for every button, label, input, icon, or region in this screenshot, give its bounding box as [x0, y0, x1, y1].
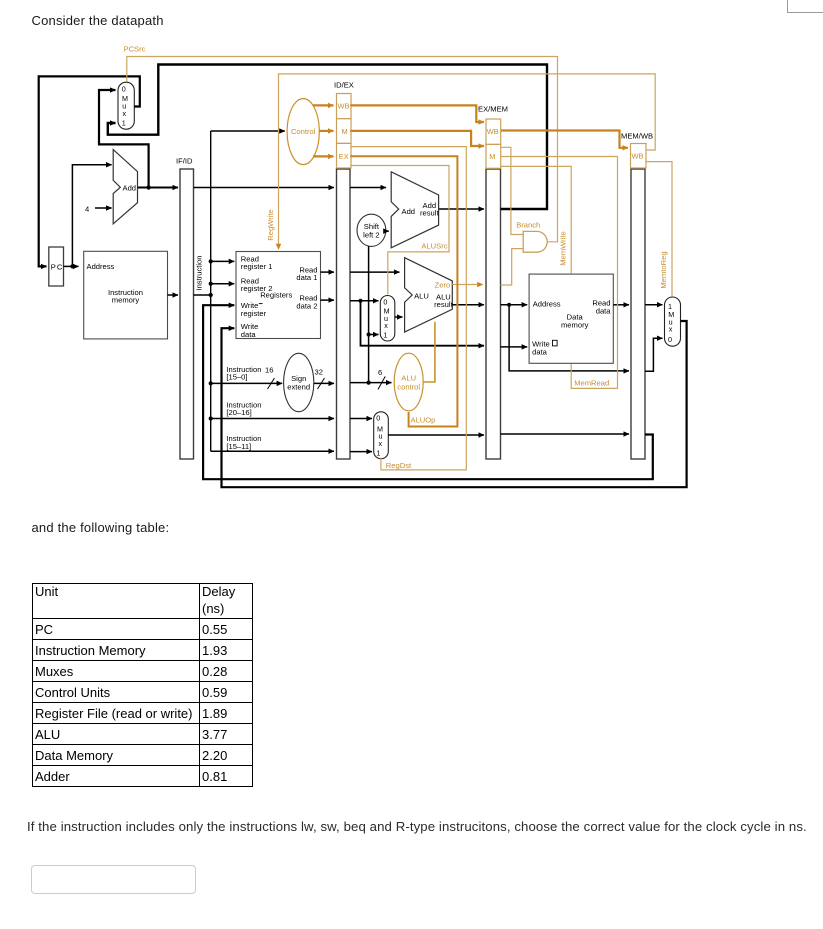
- wire ALUSrc select from ID/EX EX to ALUSrc mux: [350, 166, 449, 295]
- svg-text:PC: PC: [51, 262, 64, 271]
- wire PC mux output to PC (thick): [39, 76, 140, 266]
- svg-text:MEM/WB: MEM/WB: [621, 132, 653, 141]
- svg-text:register 1: register 1: [241, 262, 273, 271]
- svg-text:M: M: [342, 127, 348, 136]
- wire MemRead from EX/MEM M to data memory: [501, 157, 618, 389]
- svg-text:0: 0: [376, 414, 380, 423]
- svg-text:Registers: Registers: [260, 290, 292, 299]
- wire PC+4 to PC mux input 0 (thick): [99, 90, 149, 188]
- wire ALU result to EX/MEM: [452, 304, 484, 306]
- wire Control to ID/EX M (thick): [319, 130, 333, 132]
- mux MemtoReg (1/Mux/0): [665, 297, 681, 346]
- wire Control to ID/EX WB (thick): [313, 104, 334, 106]
- wire read data 2 to EX/MEM write data: [361, 301, 485, 346]
- pipeline register IF/ID: [176, 157, 194, 460]
- svg-text:0: 0: [122, 84, 126, 93]
- svg-text:Instruction: Instruction: [195, 255, 204, 290]
- wire read data 2 from ID/EX to ALUSrc mux input 0: [350, 300, 378, 302]
- wire branch adder result to EX/MEM: [439, 208, 484, 210]
- wire write-back data return (thick): [222, 321, 687, 487]
- wire Control to ID/EX EX (thick): [313, 155, 334, 157]
- svg-text:1: 1: [122, 119, 126, 128]
- wire write register number through EX/MEM to MEM/WB: [501, 433, 630, 435]
- wire instruction 20-16 to ID/EX: [211, 418, 334, 420]
- bus width slash 32: [318, 378, 325, 389]
- wire Zero flag from ALU to EX/MEM: [452, 284, 483, 286]
- node ALU result junction: [507, 303, 511, 307]
- wire instruction to Control: [211, 130, 285, 132]
- svg-text:[15–11]: [15–11]: [226, 442, 251, 451]
- wire instruction memory output to IF/ID: [168, 294, 179, 296]
- svg-text:data 1: data 1: [296, 273, 317, 282]
- wire instruction 15-11 from ID/EX to RegDst mux input 1: [350, 451, 372, 453]
- wire M signals ID/EX to EX/MEM (thick): [350, 131, 484, 146]
- svg-text:register: register: [241, 309, 267, 318]
- svg-text:1: 1: [383, 331, 387, 340]
- wire Read data 2 to ID/EX: [321, 299, 335, 301]
- svg-text:RegWrite: RegWrite: [266, 209, 275, 241]
- svg-text:MemRead: MemRead: [574, 379, 609, 388]
- svg-text:Add: Add: [123, 184, 137, 193]
- wire immediate to ALUSrc mux input 1: [369, 334, 379, 336]
- svg-text:data: data: [532, 347, 548, 356]
- branch adder (Add result): [391, 172, 439, 248]
- bus width slash 6: [378, 377, 385, 390]
- mux PCSrc (0/Mux/1): [118, 82, 134, 129]
- wire instruction to Read register 2: [211, 283, 235, 285]
- svg-text:WB: WB: [632, 152, 644, 161]
- svg-text:control: control: [397, 382, 420, 391]
- shift left 2 unit: [357, 214, 386, 246]
- wire MemWrite from EX/MEM M to data memory: [501, 166, 571, 273]
- wire MemtoReg from MEM/WB WB to write-back mux select: [646, 162, 672, 297]
- wire ALU result from EX/MEM to data memory Address: [501, 304, 528, 306]
- pipeline register ID/EX: [334, 81, 354, 460]
- adder Add (PC+4): [113, 150, 137, 224]
- wire instruction to Read register 1: [211, 260, 235, 262]
- svg-text:left 2: left 2: [363, 231, 379, 240]
- svg-text:x: x: [123, 109, 127, 118]
- wire Zero flag from EX/MEM to AND gate: [501, 249, 523, 285]
- control unit: [287, 99, 319, 165]
- svg-text:data: data: [241, 330, 257, 339]
- sign extend unit: [284, 353, 314, 411]
- bus width slash 16: [268, 378, 275, 389]
- svg-text:memory: memory: [112, 296, 140, 305]
- svg-text:RegDst: RegDst: [386, 461, 412, 470]
- mux RegDst (0/Mux/1): [374, 412, 389, 459]
- svg-text:0: 0: [383, 297, 387, 306]
- svg-text:Branch: Branch: [516, 220, 540, 229]
- svg-text:[15–0]: [15–0]: [226, 373, 247, 382]
- ALU control unit: [394, 353, 423, 411]
- wire instruction bus vertical: [210, 131, 212, 451]
- node immediate to mux junction: [367, 332, 371, 336]
- svg-text:x: x: [669, 325, 673, 334]
- svg-text:MemtoReg: MemtoReg: [659, 251, 668, 288]
- svg-text:1: 1: [376, 448, 380, 457]
- wire RegWrite from MEM/WB WB back to register file: [279, 74, 656, 249]
- node PC+4 junction: [146, 185, 150, 189]
- instruction memory: [84, 251, 168, 339]
- svg-text:PCSrc: PCSrc: [124, 45, 146, 54]
- svg-text:result: result: [420, 209, 439, 218]
- wire Read data 1 to ID/EX: [321, 271, 335, 273]
- wire PC+4 through IF/ID to ID/EX: [194, 187, 335, 189]
- wire ALU control output to ALU (thick): [423, 322, 435, 382]
- data memory: [529, 274, 613, 363]
- wire instruction 15-11 to ID/EX: [211, 450, 334, 452]
- register file (Registers): [236, 252, 321, 339]
- wire PCSrc from AND gate to PC mux select: [127, 57, 558, 242]
- wire data memory Read data to MEM/WB: [613, 304, 629, 306]
- svg-text:ALU: ALU: [414, 291, 429, 300]
- svg-text:ALUSrc: ALUSrc: [421, 242, 447, 251]
- svg-text:Address: Address: [87, 262, 115, 271]
- svg-text:Zero: Zero: [435, 280, 451, 289]
- wire ALUSrc mux output to ALU: [395, 316, 403, 318]
- wire constant 4 into adder: [95, 207, 112, 209]
- svg-text:32: 32: [315, 368, 323, 377]
- wire PC output to instruction memory Address: [64, 265, 79, 267]
- wire ALU result from MEM/WB to MemtoReg mux input 0: [645, 338, 663, 371]
- svg-text:6: 6: [378, 368, 382, 377]
- wire WB signals ID/EX to EX/MEM (thick): [350, 105, 484, 122]
- svg-text:memory: memory: [561, 321, 589, 330]
- wire instruction 15-0 to sign extend: [211, 382, 283, 384]
- svg-text:result: result: [434, 300, 453, 309]
- wire instruction out of IF/ID: [194, 294, 211, 296]
- svg-text:4: 4: [85, 205, 89, 214]
- wire sign extend output to ID/EX: [314, 382, 334, 384]
- wire sign-extended immediate from ID/EX to ALU control: [350, 382, 391, 384]
- wire PC value up to adder top input: [72, 165, 111, 267]
- svg-text:WB: WB: [487, 127, 499, 136]
- svg-text:x: x: [379, 439, 383, 448]
- wire instruction 20-16 from ID/EX to RegDst mux input 0: [350, 418, 372, 420]
- pipeline register EX/MEM: [478, 105, 508, 460]
- label Instruction [15-11]: [226, 434, 261, 451]
- node immediate junction: [367, 381, 371, 385]
- AND gate (branch): [523, 231, 547, 252]
- svg-text:x: x: [384, 321, 388, 330]
- wire adder output (PC+4) to IF/ID: [138, 187, 178, 189]
- svg-text:Control: Control: [291, 127, 316, 136]
- wire branch target from EX/MEM to PC mux input 1 (thick): [108, 65, 547, 210]
- node instruction 20-16 junction: [209, 416, 213, 420]
- node instruction 15-0 junction: [209, 381, 213, 385]
- node PC output junction: [70, 264, 74, 268]
- wire WB signals EX/MEM to MEM/WB (thick): [501, 131, 628, 148]
- svg-text:Address: Address: [533, 300, 561, 309]
- wire ALU result bypass to MEM/WB: [509, 305, 629, 371]
- label Instruction [15-0]: [226, 365, 261, 382]
- svg-text:data 2: data 2: [296, 301, 317, 310]
- node read register 2 junction: [209, 282, 213, 286]
- svg-text:M: M: [489, 152, 495, 161]
- node read register 1 junction: [209, 259, 213, 263]
- wire immediate up to shift left 2: [368, 246, 370, 383]
- wire RegDst select from ID/EX EX to RegDst mux: [350, 147, 466, 470]
- wire shift left 2 output to branch adder: [386, 230, 389, 232]
- wire RegDst mux output to EX/MEM: [388, 434, 484, 436]
- svg-text:extend: extend: [287, 383, 310, 392]
- mux ALUSrc (0/Mux/1): [380, 296, 395, 342]
- svg-text:IF/ID: IF/ID: [176, 157, 193, 166]
- svg-text:ID/EX: ID/EX: [334, 81, 354, 90]
- svg-text:EX: EX: [339, 152, 349, 161]
- wire read data from MEM/WB to MemtoReg mux input 1: [645, 304, 663, 306]
- node instruction junction: [209, 293, 213, 297]
- PC register: [49, 247, 64, 286]
- svg-text:EX/MEM: EX/MEM: [478, 105, 508, 114]
- pipeline register MEM/WB: [621, 132, 653, 460]
- svg-text:WB: WB: [338, 102, 350, 111]
- ALU: [405, 258, 454, 332]
- node read data 2 junction: [358, 299, 362, 303]
- wire Branch signal from EX/MEM M to AND gate: [501, 147, 523, 234]
- wire write register number return (thick): [203, 305, 653, 479]
- svg-text:data: data: [596, 307, 612, 316]
- wire read data 1 from ID/EX to ALU: [350, 271, 399, 273]
- label Instruction [20-16]: [226, 400, 261, 417]
- svg-text:MemWrite: MemWrite: [559, 231, 568, 265]
- svg-text:16: 16: [265, 366, 273, 375]
- svg-text:ALUOp: ALUOp: [411, 416, 436, 425]
- wire write data from EX/MEM to data memory: [501, 346, 528, 348]
- wire ALUOp from ID/EX EX to ALU control (thick): [350, 156, 457, 426]
- svg-text:[20–16]: [20–16]: [226, 408, 251, 417]
- wire PC+4 from ID/EX to branch adder: [350, 187, 386, 189]
- svg-text:Add: Add: [402, 207, 416, 216]
- svg-text:0: 0: [668, 335, 672, 344]
- svg-text:ALU: ALU: [401, 374, 416, 383]
